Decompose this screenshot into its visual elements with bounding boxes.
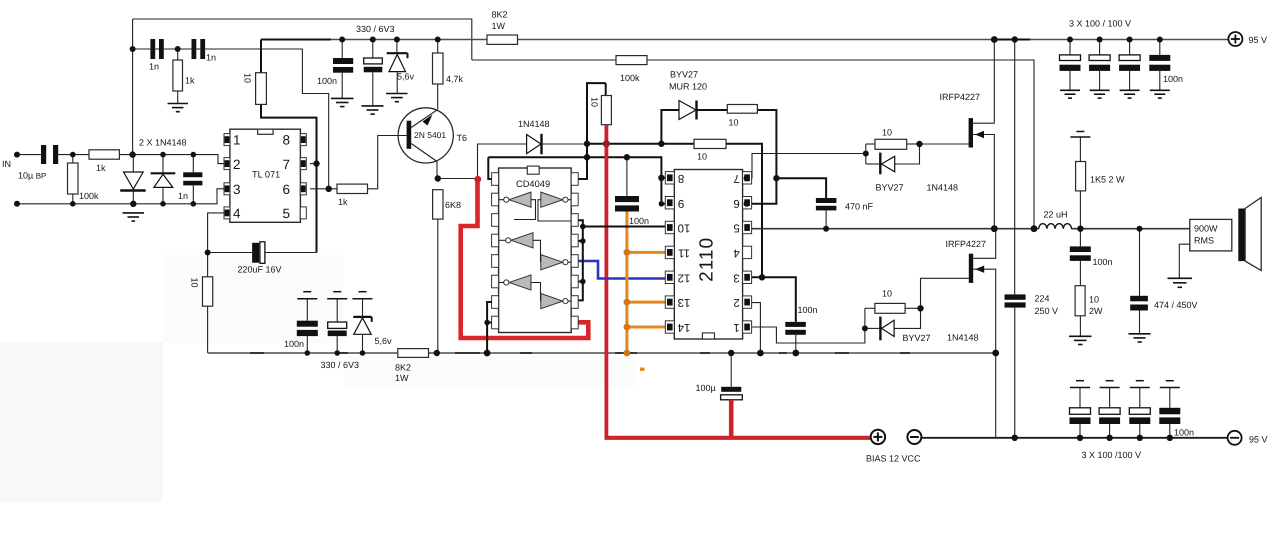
wire: 12V feed line y=143.75 (587, 143, 694, 145)
inverter 5 right (541, 294, 571, 309)
zener 5,6v top (387, 40, 408, 94)
wire red bias 12V vertical (605, 125, 609, 438)
inverter 3 right (541, 255, 571, 270)
ground below 474 (1129, 334, 1151, 342)
svg-text:1k: 1k (185, 76, 195, 86)
svg-text:100k: 100k (79, 191, 99, 201)
svg-text:IRFP4227: IRFP4227 (946, 239, 987, 249)
svg-text:12: 12 (678, 271, 691, 283)
wire: top feedback line (133, 19, 472, 60)
svg-text:5,6v: 5,6v (375, 336, 393, 346)
top cap bank 3x100/100V +95 (1060, 37, 1171, 99)
svg-text:10: 10 (243, 73, 253, 83)
wire orange stub pin11 (627, 251, 666, 254)
diode MUR120 (679, 101, 697, 120)
svg-text:330 / 6V3: 330 / 6V3 (321, 360, 360, 370)
svg-text:10: 10 (729, 118, 739, 128)
node dots top rail right (991, 36, 998, 43)
svg-text:1n: 1n (149, 62, 159, 72)
resistor 10 low gate (875, 303, 905, 313)
svg-text:1K5 2 W: 1K5 2 W (1090, 175, 1125, 185)
wire: 4.7k leads / T6 emitter (437, 40, 439, 54)
svg-text:100n: 100n (284, 339, 304, 349)
inverter 1 left (499, 192, 531, 207)
node dots SW line (991, 225, 998, 232)
capacitor 100n cd4049 area (615, 196, 639, 212)
wire: TL071 pin4 to 10R to rail (208, 213, 226, 277)
svg-text:100n: 100n (798, 305, 818, 315)
svg-text:470 nF: 470 nF (845, 202, 874, 212)
pin digits left (rotated) (677, 172, 690, 333)
top MOSFET drain/source leads (973, 40, 995, 124)
wire: corner over 10R bias (578, 83, 606, 179)
wire: pin7 HO to gate network (751, 154, 865, 179)
svg-text:1N4148: 1N4148 (518, 119, 550, 129)
svg-text:22 uH: 22 uH (1044, 210, 1068, 220)
resistor 10 high gate (875, 139, 907, 149)
capacitor bank 100n top (1149, 40, 1170, 99)
node red dot 12V (603, 140, 610, 147)
svg-text:9: 9 (678, 197, 684, 209)
diode 1N4148 mid (527, 134, 542, 155)
resistor 1k pulldown top-left (173, 60, 183, 91)
wire: 1k fb to T6 base (368, 136, 407, 189)
svg-text:3: 3 (233, 182, 241, 197)
node dot collector (435, 175, 441, 181)
wire: input top line (17, 154, 41, 156)
capacitor bank C 100uF f (1129, 381, 1150, 438)
node dots 1n line (130, 46, 136, 52)
wire blue LIN (575, 261, 666, 279)
resistor 1k input (89, 150, 119, 159)
driver IC U3 2110 (665, 170, 751, 340)
resistor 8K2 1W top (487, 35, 518, 44)
high-side gate network wires (865, 144, 867, 164)
wire: 470nF bottom (825, 210, 827, 229)
svg-text:BYV27: BYV27 (876, 183, 904, 193)
svg-text:2110: 2110 (697, 237, 718, 282)
wire: pin3 VCC to 100n (751, 277, 795, 322)
ground below speaker (1168, 278, 1193, 287)
474 cap leads (1139, 229, 1141, 296)
resistor 10 vertical top-left (256, 73, 267, 105)
pin 5 (300, 207, 306, 219)
pin 1 (224, 134, 230, 146)
node dots supply rail (339, 37, 345, 43)
capacitor 100n supply trio top (333, 40, 353, 99)
wire: supply corner down to 10R (260, 40, 262, 73)
diode BYV27 high (880, 153, 894, 175)
svg-text:10: 10 (882, 128, 892, 138)
wire: TL071 pin6 to 1k (310, 188, 337, 190)
wire HIN black net (575, 220, 583, 300)
wire: 1N4148 cathode to junction (543, 143, 588, 145)
low-side gate network wires (864, 308, 866, 328)
svg-text:2: 2 (733, 296, 739, 308)
MOSFET Q2 IRFP4227 bottom (969, 254, 984, 283)
resistor 1k feedback (337, 184, 368, 193)
wire: 1n-1k top network line (133, 48, 151, 50)
svg-text:IRFP4227: IRFP4227 (940, 92, 981, 102)
capacitor 100n vcc (785, 322, 806, 335)
wire: VS / SW output line (751, 228, 1038, 230)
background artifact patches (0, 342, 163, 502)
svg-text:1: 1 (233, 133, 241, 148)
svg-text:2: 2 (233, 157, 241, 172)
wire: CD4049 VDD line y=157.25 (488, 157, 669, 178)
svg-text:6K8: 6K8 (445, 200, 461, 210)
pin 7 (300, 158, 306, 170)
ground below input diodes (123, 213, 145, 221)
capacitor bank C 100uF d (1070, 381, 1091, 438)
100n out / 10 2W chain (1079, 229, 1081, 247)
svg-text:1W: 1W (395, 373, 409, 383)
svg-text:8: 8 (282, 133, 290, 148)
ground below 1k top-left (168, 104, 189, 112)
svg-text:220uF 16V: 220uF 16V (238, 265, 282, 275)
inverter 1 right (541, 192, 571, 207)
inductor 22uH (1039, 224, 1072, 229)
diode D1 1N4148 input (120, 155, 146, 204)
wire: 6K8 bottom lead (437, 219, 439, 353)
resistor 10 bottom-left (203, 277, 213, 306)
svg-text:100n: 100n (1163, 74, 1183, 84)
left pads (492, 173, 499, 329)
capacitor 1n second top-left (192, 39, 206, 59)
224 cap verticals (1014, 40, 1016, 295)
svg-text:10: 10 (190, 278, 200, 288)
node IN top terminal (14, 152, 20, 158)
node dots input (70, 152, 76, 158)
wire red 100u to bias line (729, 400, 734, 438)
svg-text:IN: IN (2, 159, 11, 169)
pin 8 (300, 134, 306, 146)
svg-text:5,6v: 5,6v (397, 72, 415, 82)
svg-text:BYV27: BYV27 (670, 70, 698, 80)
wire: left vertical from top line to input node (132, 19, 134, 155)
capacitor 10u BP (41, 145, 58, 164)
pin 6 (300, 183, 306, 195)
svg-text:7: 7 (282, 157, 290, 172)
svg-text:4: 4 (233, 206, 241, 221)
svg-text:100µ: 100µ (696, 383, 716, 393)
right pads (571, 173, 578, 329)
svg-text:1W: 1W (492, 21, 506, 31)
resistor 100k input (68, 155, 79, 204)
wire CD4049 ground pins (487, 302, 492, 353)
resistor 1K5 2W (1076, 162, 1086, 191)
capacitor 330/6V3 bottom (328, 299, 347, 353)
svg-text:1n: 1n (178, 191, 188, 201)
capacitor 330/6V3 electrolytic top (364, 40, 383, 106)
ground below 330uF top (362, 106, 384, 114)
capacitor 474/450V (1130, 296, 1148, 311)
svg-text:3: 3 (733, 271, 739, 283)
wire: 220uF left lead (208, 252, 253, 254)
resistor 10 bias vertical (601, 96, 611, 125)
resistor 6K8 (433, 190, 443, 219)
resistor 10 bootstrap (727, 105, 757, 114)
svg-text:1k: 1k (96, 163, 106, 173)
wire: input bottom line (17, 189, 226, 204)
capacitor 100n bottom trio (297, 299, 318, 353)
svg-text:95 V: 95 V (1249, 35, 1268, 45)
wire: pin2 COM to rail (751, 303, 760, 353)
capacitor bank C 100uF c (1119, 40, 1140, 99)
node dots ground rail (305, 350, 311, 356)
svg-text:MUR 120: MUR 120 (669, 82, 707, 92)
left pads pins 8-14 (665, 172, 674, 334)
bottom cap bank 3x100/100V -95 (1012, 381, 1181, 441)
svg-text:1n: 1n (206, 53, 216, 63)
transistor T6 2N5401 (398, 108, 453, 163)
svg-text:14: 14 (677, 321, 690, 333)
svg-text:11: 11 (678, 247, 690, 259)
inverter internal wiring top (514, 200, 536, 220)
capacitor bank C 100uF e (1099, 381, 1120, 438)
wire: feedback mid line to 100k (472, 59, 616, 61)
supply rail 330/6V3 top (261, 39, 331, 41)
wire red CD4049 loop (461, 179, 589, 339)
wire: pin1 LO to low gate network (751, 327, 865, 343)
terminal bar above 1K5 (1070, 132, 1090, 138)
wire: 1k pulldown leads (177, 49, 179, 60)
node dot pin6 line (326, 186, 332, 192)
inverter 4 left (499, 275, 531, 290)
speaker 900W RMS (1190, 198, 1261, 271)
ground rail (0V bias) (208, 352, 398, 354)
svg-text:224: 224 (1035, 294, 1050, 304)
svg-text:474 / 450V: 474 / 450V (1154, 300, 1198, 310)
svg-text:10: 10 (882, 289, 892, 299)
svg-text:6: 6 (282, 182, 290, 197)
terminal BIAS + (871, 430, 885, 444)
svg-text:2 X 1N4148: 2 X 1N4148 (139, 138, 187, 148)
svg-text:330 / 6V3: 330 / 6V3 (356, 24, 395, 34)
svg-text:5: 5 (733, 222, 739, 234)
inverter IC U2 CD4049 (492, 166, 579, 332)
terminal BIAS - (907, 430, 921, 444)
svg-text:T6: T6 (457, 133, 468, 143)
pin 2 (224, 158, 230, 170)
op-amp U1 TL071 (224, 129, 306, 222)
node dots 12V line (584, 141, 590, 147)
svg-text:8K2: 8K2 (395, 363, 411, 373)
svg-text:10: 10 (697, 152, 707, 162)
capacitor 1n input (183, 155, 202, 204)
svg-text:13: 13 (678, 296, 691, 308)
capacitor bank 100n bottom (1159, 381, 1180, 438)
ground below 10 2W (1069, 336, 1092, 344)
svg-text:BYV27: BYV27 (903, 333, 931, 343)
svg-text:100n: 100n (1093, 257, 1113, 267)
node IN bottom terminal (14, 201, 20, 207)
wire: collector node up to 1N4148 anode (478, 144, 527, 179)
svg-text:1k: 1k (338, 197, 348, 207)
svg-text:6: 6 (733, 197, 739, 209)
svg-text:CD4049: CD4049 (516, 179, 550, 189)
speaker return wire (1179, 244, 1190, 278)
right pads pins 7-1 (743, 172, 752, 334)
wire: T6 collector lead (436, 161, 438, 179)
wire orange stub pin13 (627, 301, 666, 304)
svg-text:10: 10 (590, 97, 600, 107)
svg-text:RMS: RMS (1194, 236, 1214, 246)
svg-text:10: 10 (1089, 295, 1099, 305)
svg-text:100n: 100n (317, 76, 337, 86)
inverter internal wiring bottom (531, 283, 541, 302)
inverter 2 left (499, 233, 533, 248)
wire: pin6 to 470nF (776, 178, 826, 198)
svg-text:250 V: 250 V (1035, 306, 1059, 316)
pin 4 (224, 207, 230, 219)
wire: VB vertical to pin6 (751, 178, 776, 204)
svg-text:5: 5 (282, 206, 290, 221)
capacitor 100n output (1070, 246, 1091, 261)
terminal +95V (1228, 32, 1242, 46)
diode BYV27 low (880, 317, 894, 341)
svg-text:2W: 2W (1089, 306, 1103, 316)
wire: bootstrap branch to MUR120 (661, 110, 679, 144)
svg-text:4,7k: 4,7k (446, 74, 464, 84)
svg-text:1: 1 (733, 321, 739, 333)
node dot pin7 V+ (313, 160, 319, 166)
capacitor 1n first top-left (150, 39, 163, 59)
wire: 100n decoupling top lead (626, 157, 628, 196)
wire red bias horizontal (605, 436, 871, 440)
capacitor bank C 100uF a (1060, 40, 1081, 99)
pin 3 (224, 183, 230, 195)
wire: 100k to SW node vertical (647, 60, 1034, 229)
node dots 2110 pins (659, 201, 665, 207)
svg-text:10: 10 (678, 222, 691, 234)
svg-text:900W: 900W (1194, 224, 1218, 234)
capacitor 224 250V (1005, 294, 1026, 307)
svg-text:100n: 100n (629, 216, 649, 226)
zener 5,6v bottom (353, 299, 371, 353)
svg-text:TL 071: TL 071 (252, 169, 280, 179)
1K5 leads (1079, 138, 1081, 162)
terminal -95V (1228, 431, 1242, 445)
resistor 10 vcc feed (694, 139, 726, 148)
ground below zener top (386, 94, 408, 102)
wire: collector to red node (437, 178, 478, 180)
pin digits right (rotated) (733, 172, 740, 333)
capacitor 100u bias (721, 353, 743, 400)
svg-text:4: 4 (733, 247, 740, 259)
capacitor 220uF 16V (252, 242, 265, 263)
svg-text:8K2: 8K2 (492, 10, 508, 20)
MOSFET Q1 IRFP4227 top (969, 118, 984, 147)
resistor 4,7k (433, 53, 444, 84)
resistor 10 2W (1075, 286, 1085, 316)
diode D2 1N4148 input (151, 155, 176, 204)
svg-text:3 X 100 /100 V: 3 X 100 /100 V (1082, 450, 1142, 460)
svg-text:1N4148: 1N4148 (947, 333, 979, 343)
lower MOSFET drain/source leads (973, 229, 996, 259)
svg-text:3 X 100 / 100 V: 3 X 100 / 100 V (1069, 19, 1131, 29)
wire orange stub pin14 (627, 326, 666, 329)
capacitor bank C 100uF b (1089, 40, 1110, 99)
artifact orange dash (640, 368, 645, 371)
svg-text:100n: 100n (1174, 428, 1194, 438)
svg-text:2N 5401: 2N 5401 (414, 130, 446, 140)
wire: 220uF right lead (265, 252, 317, 254)
resistor 100k feedback (616, 56, 647, 65)
inverter internal wiring mid (533, 240, 541, 262)
-95V bottom line (922, 437, 1228, 439)
capacitor 470nF (816, 198, 837, 210)
node orange dots (624, 249, 631, 256)
svg-text:1N4148: 1N4148 (927, 183, 959, 193)
wire: TL071 pin7 stub (310, 163, 317, 165)
ground below 100n top trio (331, 98, 354, 106)
svg-text:100k: 100k (620, 73, 640, 83)
wire orange vss (625, 212, 628, 354)
svg-text:10µ BP: 10µ BP (18, 171, 46, 181)
svg-text:7: 7 (733, 172, 739, 184)
svg-text:BIAS 12 VCC: BIAS 12 VCC (866, 454, 921, 464)
svg-text:8: 8 (678, 172, 684, 184)
resistor 8K2 1W bottom (398, 349, 429, 358)
svg-text:95 V: 95 V (1249, 435, 1268, 445)
